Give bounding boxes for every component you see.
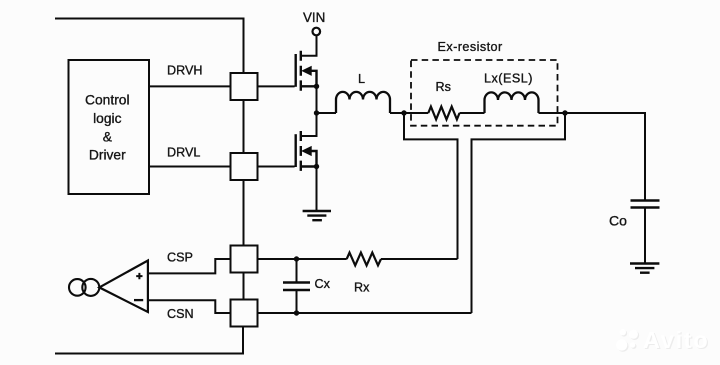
watermark: Avito logo xyxy=(616,327,710,354)
wire: SW node to inductor L xyxy=(317,112,337,114)
wire: inductor L to node A xyxy=(390,112,404,114)
label: + input xyxy=(136,273,142,279)
svg-text:CSN: CSN xyxy=(167,307,194,321)
svg-text:Ex-resistor: Ex-resistor xyxy=(438,40,503,54)
svg-text:logic: logic xyxy=(93,111,121,126)
svg-text:&: & xyxy=(103,129,112,144)
transistor Q1 (high-side N-MOSFET) xyxy=(296,51,317,91)
op-amp U2: current-sense amplifier (points left) xyxy=(99,261,148,313)
wire: Co to ground xyxy=(644,208,646,264)
wire: CSN pin to amp - input xyxy=(148,300,230,313)
svg-text:DRVH: DRVH xyxy=(167,64,202,78)
node: Q2 source junction xyxy=(314,164,319,169)
svg-text:CSP: CSP xyxy=(167,250,193,264)
ground (output) xyxy=(630,264,659,273)
label: - input xyxy=(134,299,143,301)
label: Control logic & Driver xyxy=(85,93,129,163)
wire: Cx upper lead xyxy=(296,259,298,283)
svg-text:Avito: Avito xyxy=(643,327,709,353)
node: CSP / Cx junction xyxy=(294,256,299,261)
wire DRVL: control box to pin box to Q2 gate xyxy=(149,166,295,168)
node: CSN / Cx junction xyxy=(294,310,299,315)
transistor Q2 (low-side N-MOSFET) xyxy=(296,131,317,171)
pin box CSP xyxy=(231,246,258,273)
wire: Rs to Lx xyxy=(460,112,485,114)
wire DRVH: control box to pin box to Q1 gate xyxy=(149,85,295,87)
resistor Rx xyxy=(347,253,381,266)
wire: IC edge vertical segments between pin boxes xyxy=(243,100,245,300)
wire: CSP row (pin box to Rx to sense tap) xyxy=(258,258,458,260)
svg-text:L: L xyxy=(358,72,365,86)
wire: CSP pin to amp + input xyxy=(148,259,230,273)
current source CS1 (two overlapping circles) xyxy=(69,279,86,296)
svg-text:Lx(ESL): Lx(ESL) xyxy=(484,72,533,86)
wire: node A down and over to CSP sense line xyxy=(404,113,458,259)
svg-text:Co: Co xyxy=(609,213,627,229)
wire: bottom-left rail into CSN pin xyxy=(55,327,243,354)
svg-text:VIN: VIN xyxy=(303,10,325,25)
resistor Rs xyxy=(428,107,459,120)
capacitor Cx xyxy=(283,283,310,291)
svg-text:Cx: Cx xyxy=(315,277,331,291)
wire: VIN to Q1 drain xyxy=(302,36,317,56)
ground (power stage) xyxy=(303,211,331,220)
svg-text:Rs: Rs xyxy=(436,80,451,94)
wire: node B down and over to CSN sense line xyxy=(472,113,566,313)
svg-text:Rx: Rx xyxy=(354,281,370,295)
wire: node B to output capacitor Co xyxy=(565,113,645,201)
wire: SW node to Q2 drain xyxy=(302,113,317,136)
wire: Lx to node B xyxy=(539,112,566,114)
node SW (switch node) xyxy=(314,110,319,115)
wire: CSN row (pin box to wire B corner) xyxy=(258,312,472,314)
wire: Q1 source to SW node xyxy=(316,86,318,113)
wire: top-left rail into DRVH pin xyxy=(55,19,244,74)
inductor L xyxy=(336,92,390,113)
pin box DRVH xyxy=(231,73,258,100)
node: Q1 source junction xyxy=(314,84,319,89)
terminal VIN xyxy=(313,28,321,36)
svg-text:Control: Control xyxy=(85,93,129,108)
wire: Q2 source down to ground xyxy=(316,167,318,212)
dashed box: Ex-resistor model xyxy=(411,60,558,126)
svg-text:Driver: Driver xyxy=(89,148,126,163)
wire: node A to Rs xyxy=(404,112,428,114)
pin box CSN xyxy=(231,300,258,327)
node A (L / Rs / sense tap junction) xyxy=(401,110,406,115)
node B (output junction) xyxy=(562,110,567,115)
svg-text:DRVL: DRVL xyxy=(167,146,200,160)
wire: Cx lower lead xyxy=(296,290,298,313)
capacitor Co xyxy=(631,201,660,208)
control block U1 (Control logic & Driver) xyxy=(69,60,150,194)
pin box DRVL xyxy=(231,153,258,180)
inductor Lx(ESL) xyxy=(485,92,539,113)
